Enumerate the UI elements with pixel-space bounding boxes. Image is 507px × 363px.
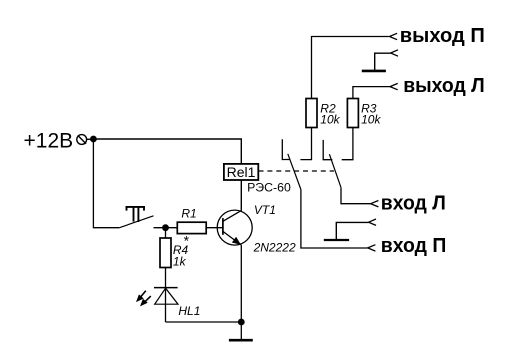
svg-text:10k: 10k <box>320 113 340 127</box>
relay contact K1.2 fixed stub <box>323 140 332 160</box>
LED HL1 <box>154 288 178 305</box>
wire LED to emitter junction <box>166 321 242 323</box>
svg-text:R1: R1 <box>181 206 196 220</box>
junction dot A (+12V rail) <box>90 136 97 143</box>
ground (input jack) <box>324 239 349 241</box>
wire output L line <box>353 87 390 99</box>
svg-text:вход П: вход П <box>381 235 447 257</box>
connector pin P1 (+12V) <box>77 135 93 145</box>
wire input jack sleeve to ground <box>336 222 368 239</box>
resistor R4 <box>160 238 171 268</box>
wire output jack sleeve to ground <box>375 53 391 70</box>
svg-text:Rel1: Rel1 <box>227 164 256 180</box>
svg-text:выход Л: выход Л <box>403 75 485 97</box>
svg-text:VT1: VT1 <box>254 203 276 217</box>
wire +12V down to switch <box>93 139 119 228</box>
svg-text:+12В: +12В <box>24 130 74 153</box>
svg-text:РЭС-60: РЭС-60 <box>247 181 291 195</box>
resistor R1 <box>177 222 206 233</box>
relay contact K1.1 movable blade <box>288 154 301 190</box>
switch SB1 pushbutton actuator <box>126 206 145 222</box>
connector arrow input L <box>371 201 379 207</box>
wire contact K1.2 pole to input L <box>341 188 371 204</box>
wire R2 to contact K1.1 <box>300 128 311 160</box>
LED light arrow 1 <box>137 291 146 301</box>
junction dot C (emitter/ground) <box>238 319 245 326</box>
LED light arrow 2 <box>141 296 151 305</box>
connector arrow input P <box>368 245 376 251</box>
ground (output jack) <box>362 70 386 73</box>
wire +12V rail to relay <box>93 139 241 164</box>
wire junction C to ground <box>240 322 242 340</box>
junction dot B (switch/R1/R4) <box>162 224 169 231</box>
wire relay to collector <box>240 180 242 211</box>
dashed relay link <box>259 170 335 172</box>
relay coil Rel1 <box>224 164 258 180</box>
wire R4 to LED <box>165 268 167 323</box>
switch SB1 blade <box>119 216 153 228</box>
svg-text:2N2222: 2N2222 <box>253 240 296 254</box>
ground <box>229 339 253 342</box>
svg-text:1k: 1k <box>173 255 187 269</box>
svg-text:10k: 10k <box>361 113 381 127</box>
resistor R3 <box>347 99 358 128</box>
svg-text:выход П: выход П <box>400 25 485 47</box>
relay contact K1.2 movable blade <box>329 154 341 187</box>
connector arrow output P <box>389 33 397 39</box>
wire emitter down <box>240 245 242 322</box>
connector arrow output L <box>390 83 398 89</box>
wire junction B down to R4 <box>165 228 167 238</box>
svg-text:HL1: HL1 <box>178 304 200 318</box>
wire output P line <box>312 37 389 99</box>
wire contact K1.1 pole to input P <box>301 190 368 249</box>
connector arrow input jack sleeve <box>369 219 376 225</box>
wire R3 to contact K1.2 <box>342 128 353 160</box>
svg-text:вход Л: вход Л <box>381 193 446 215</box>
wire switch to R1 <box>154 227 178 229</box>
relay contact K1.1 fixed stub <box>282 139 290 159</box>
transistor VT1 <box>217 210 252 245</box>
resistor R2 <box>306 99 317 128</box>
wire R1 to base <box>206 227 223 229</box>
connector arrow output jack sleeve <box>391 50 398 56</box>
